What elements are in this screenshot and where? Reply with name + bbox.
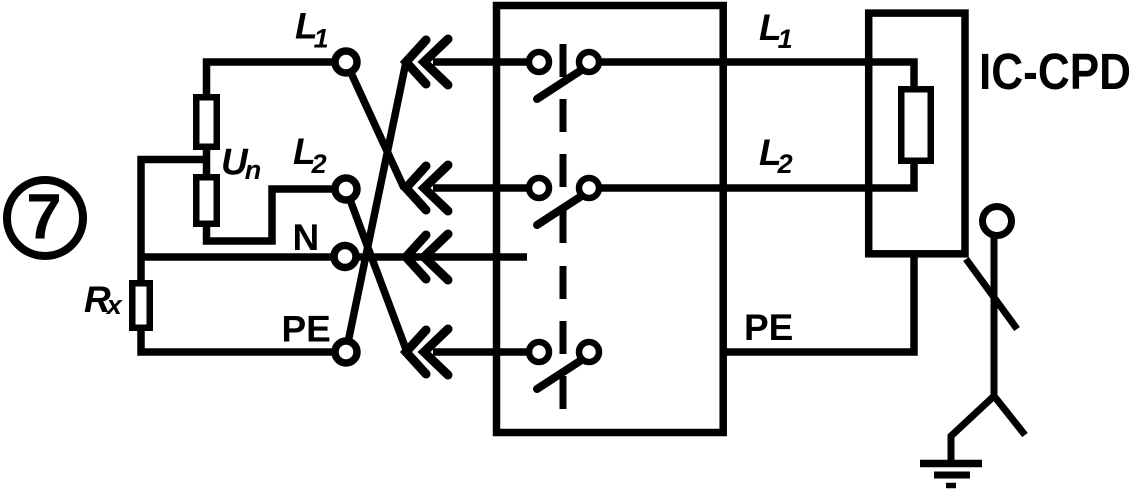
svg-text:PE: PE: [744, 307, 793, 348]
svg-text:7: 7: [26, 181, 62, 253]
svg-text:IC-CPD: IC-CPD: [979, 43, 1131, 100]
svg-text:N: N: [293, 217, 320, 258]
svg-text:PE: PE: [282, 309, 331, 350]
